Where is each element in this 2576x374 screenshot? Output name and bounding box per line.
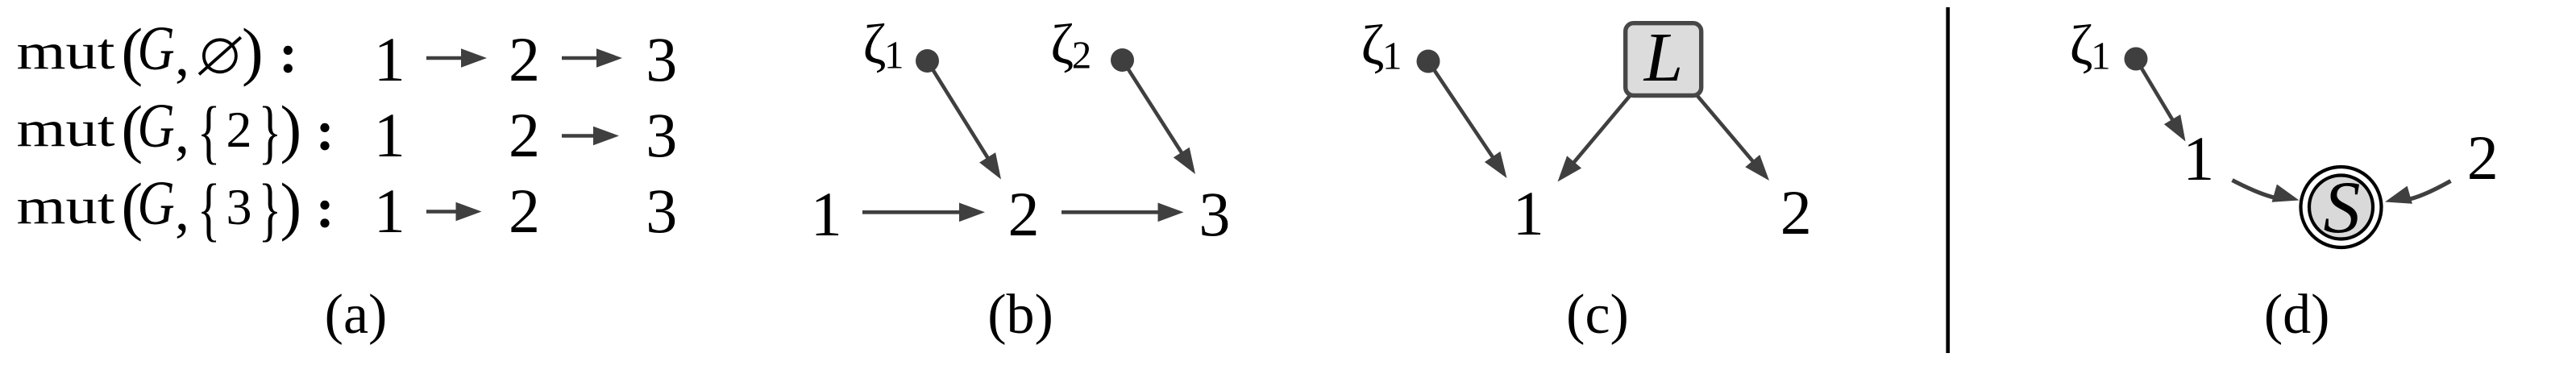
svg-text:): ) [280, 172, 302, 243]
svg-text:2: 2 [226, 101, 252, 158]
svg-text:3: 3 [646, 24, 677, 94]
svg-text:S: S [2324, 166, 2361, 248]
svg-text:ζ: ζ [863, 14, 887, 76]
svg-text:,: , [175, 178, 189, 243]
svg-text:1: 1 [2091, 34, 2111, 78]
svg-text:2: 2 [509, 176, 540, 246]
svg-text:1: 1 [811, 179, 842, 249]
svg-text:2: 2 [2467, 123, 2499, 193]
svg-text:1: 1 [1513, 178, 1544, 248]
svg-text:mut: mut [17, 100, 115, 157]
svg-text:): ) [242, 17, 264, 88]
svg-text:G: G [138, 91, 175, 160]
svg-text:1: 1 [374, 100, 405, 170]
svg-text:,: , [175, 23, 189, 88]
svg-text:mut: mut [17, 177, 115, 235]
svg-text:3: 3 [1199, 179, 1230, 249]
svg-text:1: 1 [2183, 123, 2214, 193]
svg-text:3: 3 [226, 178, 252, 235]
svg-text:G: G [138, 14, 175, 83]
svg-text:2: 2 [1780, 177, 1812, 247]
svg-text:ζ: ζ [1361, 15, 1385, 77]
svg-text:(b): (b) [987, 284, 1053, 346]
svg-text:): ) [280, 94, 302, 165]
svg-text:ζ: ζ [1050, 14, 1074, 76]
svg-text:,: , [175, 101, 189, 165]
svg-text:3: 3 [646, 100, 677, 170]
svg-text:1: 1 [884, 33, 904, 77]
svg-text:2: 2 [509, 100, 540, 170]
svg-text:1: 1 [1382, 34, 1402, 78]
svg-text:mut: mut [17, 23, 115, 80]
svg-text:ζ: ζ [2070, 15, 2093, 77]
svg-text:}: } [259, 93, 282, 171]
svg-text:2: 2 [1072, 33, 1092, 77]
svg-text:(a): (a) [325, 284, 388, 346]
svg-text:2: 2 [1008, 179, 1040, 249]
svg-text:{: { [197, 170, 221, 248]
svg-text:(d): (d) [2264, 284, 2330, 346]
svg-text:(c): (c) [1566, 284, 1629, 346]
svg-text:L: L [1643, 18, 1683, 96]
svg-text:3: 3 [646, 176, 677, 246]
svg-text:G: G [138, 168, 175, 238]
svg-text:1: 1 [374, 24, 405, 94]
svg-text:{: { [197, 93, 221, 171]
svg-text:2: 2 [509, 24, 540, 94]
svg-text:}: } [259, 170, 282, 248]
svg-text:1: 1 [374, 176, 405, 246]
